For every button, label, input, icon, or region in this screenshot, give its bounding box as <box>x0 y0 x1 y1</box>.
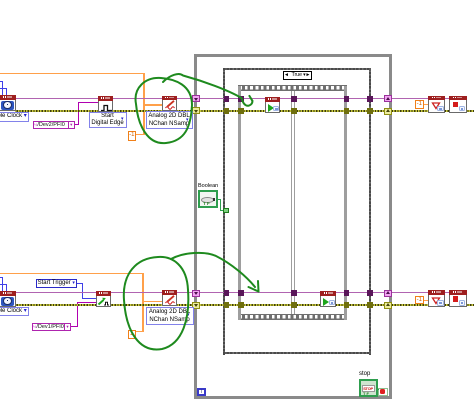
case structure border left <box>223 68 225 355</box>
label Sample Clock (bottom) <box>0 307 29 316</box>
constant -1 (bottom right) <box>415 296 425 305</box>
annotation circle around bottom read VI <box>124 257 189 350</box>
Boolean control terminal <box>198 190 218 208</box>
wire blue samples bottom <box>0 284 7 285</box>
wire string /Dev1/PFI0 <box>71 326 78 327</box>
wire blue rate top <box>0 81 3 82</box>
wire orange bottom vertical <box>142 273 144 333</box>
label Sample Clock (top) <box>0 112 29 122</box>
shift register purple bottom-right <box>384 290 392 297</box>
tunnel error1 case left <box>224 108 230 114</box>
wire purple task top <box>15 98 449 100</box>
tunnel task1 sequence right <box>344 96 350 102</box>
label Analog 2D DBL NChan NSamp (top) <box>146 111 193 129</box>
wire blue rate bottom <box>0 277 3 278</box>
shift register purple top-left <box>192 95 200 102</box>
tunnel error1 sequence divider <box>291 108 297 114</box>
constant /Dev2/PFI0 <box>33 121 75 130</box>
wire error bottom <box>15 304 474 306</box>
tunnel error2 sequence divider <box>291 302 297 308</box>
tunnel task2 sequence right <box>344 290 350 296</box>
VI U7 DAQmx Timing Sample Clock (bottom) <box>0 291 16 307</box>
wire blue samples top <box>0 88 7 89</box>
wire orange to -1 constant <box>135 134 144 136</box>
VI U2 DAQmx Start Digital Edge trigger (top) <box>98 96 114 112</box>
shift register purple bottom-left <box>192 290 200 297</box>
tunnel task1 sequence left <box>238 96 244 102</box>
constant /Dev1/PFI0 <box>32 323 71 332</box>
constant -1 (top right) <box>415 100 425 109</box>
tunnel task2 sequence left <box>238 290 244 296</box>
constant 1 (bottom left) <box>128 330 136 339</box>
tunnel error1 sequence right <box>344 108 350 114</box>
shift register error top-left <box>192 107 200 114</box>
VI U4 DAQmx Start Task (in sequence, top) <box>265 97 281 113</box>
case selector label True <box>283 71 313 80</box>
wire orange to 1 constant <box>135 331 143 333</box>
shift register error bottom-left <box>192 302 200 309</box>
tunnel task1 case right <box>367 96 373 102</box>
tunnel task2 case left <box>224 290 230 296</box>
wire orange -1 to wait VI top <box>424 104 428 105</box>
flat sequence bottom film band <box>238 314 348 320</box>
annotation arrow to case (top) <box>163 74 242 98</box>
while loop <box>194 54 392 399</box>
VI U3 DAQmx Read Analog 2D (top) <box>162 96 177 112</box>
annotation arrow to case (bottom) <box>171 253 255 287</box>
tunnel task1 sequence divider <box>291 96 297 102</box>
case structure border top <box>223 68 371 70</box>
constant -1 (top left) <box>128 131 137 141</box>
loop condition terminal <box>378 388 388 396</box>
case selector terminal <box>223 208 229 214</box>
case structure border right <box>369 68 371 355</box>
flat sequence top film band <box>238 85 348 91</box>
shift register purple top-right <box>384 95 392 102</box>
wire stop to condition <box>377 389 379 390</box>
loop iteration terminal <box>197 388 206 396</box>
wire error top <box>15 110 474 112</box>
flat sequence frame divider <box>291 91 293 314</box>
wire orange bottom horizontal <box>0 273 144 275</box>
constant Start Trigger <box>36 279 78 288</box>
VI U8 DAQmx trigger (bottom) <box>96 291 112 307</box>
wire orange into read VI 2 <box>142 301 162 303</box>
tunnel error1 case right <box>367 108 373 114</box>
VI U5 DAQmx Wait Until Done (top) <box>428 96 446 113</box>
flat sequence right border <box>344 86 347 320</box>
flat sequence left border <box>238 86 241 320</box>
tunnel error2 case right <box>367 302 373 308</box>
wire boolean green <box>218 199 222 200</box>
VI U9 DAQmx Read Analog 2D (bottom) <box>162 290 177 306</box>
tunnel task2 sequence divider <box>291 290 297 296</box>
label Boolean <box>198 183 218 189</box>
label Analog 2D DBL NChan NSamp (bottom) <box>146 307 194 325</box>
shift register error bottom-right <box>384 302 392 309</box>
wire purple task bottom <box>15 292 449 294</box>
annotation circle around top read VI <box>136 78 192 143</box>
tunnel task2 case right <box>367 290 373 296</box>
wire string /Dev2/PFI0 <box>75 124 79 125</box>
tunnel error1 sequence left <box>238 108 244 114</box>
tunnel error2 sequence left <box>238 302 244 308</box>
tunnel task1 case left <box>224 96 230 102</box>
tunnel error2 sequence right <box>344 302 350 308</box>
wire blue from Start Trigger constant <box>77 283 83 284</box>
wire orange into read VI 1 <box>143 104 162 106</box>
wire orange top horizontal <box>0 73 145 75</box>
case structure border bottom <box>223 352 371 354</box>
stop button terminal <box>359 379 378 398</box>
shift register error top-right <box>384 108 392 115</box>
label Start Digital Edge <box>89 112 127 129</box>
VI U10 DAQmx Start Task (in sequence, bottom) <box>320 291 336 307</box>
tunnel error2 case left <box>224 302 230 308</box>
wire orange top vertical <box>143 73 145 135</box>
VI U6 DAQmx Stop/Clear Task (top) <box>449 96 467 113</box>
wire orange -1 to wait VI bottom <box>424 300 428 301</box>
VI U1 DAQmx Timing Sample Clock (top) <box>0 95 16 111</box>
VI U11 DAQmx Wait Until Done (bottom) <box>428 290 446 307</box>
label stop <box>359 371 370 377</box>
VI U12 DAQmx Stop/Clear Task (bottom) <box>449 290 467 307</box>
